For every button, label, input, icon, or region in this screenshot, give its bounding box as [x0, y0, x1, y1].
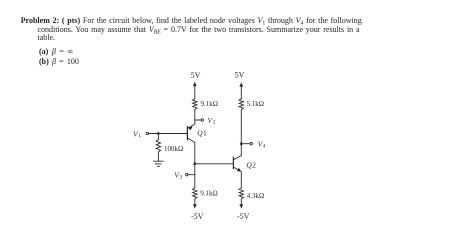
- value label 100kOhm (R2): [164, 145, 183, 153]
- wire: V1 to Q1 base: [149, 133, 188, 135]
- wire: R1 to Q1 emitter (node V2 segment): [194, 110, 196, 125]
- svg-text:1: 1: [203, 129, 207, 138]
- label V3: [174, 171, 182, 181]
- wire: R4 to Q2 collector: [240, 110, 242, 156]
- problem statement line 2: [38, 26, 360, 34]
- label V1: [133, 129, 141, 139]
- item (a): [39, 48, 73, 56]
- junction dot (Q1 collector / Q2 base node): [193, 162, 196, 165]
- svg-text:-5V: -5V: [191, 212, 204, 221]
- wire: junction to R2: [157, 134, 159, 140]
- arrow down to -5V (left): [193, 199, 197, 209]
- value label 4.3kOhm (R5): [247, 192, 264, 200]
- svg-text:-5V: -5V: [237, 212, 250, 221]
- junction dot (node V4): [240, 142, 243, 145]
- ground symbol: [154, 161, 164, 166]
- supply label -5V (left): [191, 212, 204, 221]
- junction dot (V1 / 100k node): [157, 132, 160, 135]
- svg-text:2: 2: [213, 120, 216, 126]
- resistor R1 9.1k: [193, 99, 197, 110]
- svg-text:5.1kΩ: 5.1kΩ: [247, 100, 264, 108]
- svg-text:4.3kΩ: 4.3kΩ: [247, 192, 264, 200]
- wire: Q1 collector down to R3: [194, 142, 196, 187]
- supply label +5V (left): [191, 71, 201, 80]
- resistor R2 100k: [156, 139, 160, 152]
- svg-text:3: 3: [179, 175, 182, 181]
- problem statement line 1: [21, 17, 362, 25]
- arrow up to +5V (right): [239, 82, 243, 98]
- node V3 terminal stub: [186, 174, 195, 176]
- arrow up to +5V (left): [193, 82, 197, 99]
- resistor R4 5.1k: [239, 99, 243, 110]
- svg-text:9.1kΩ: 9.1kΩ: [201, 100, 218, 108]
- value label 9.1kOhm (R1): [201, 100, 218, 108]
- svg-text:4: 4: [263, 143, 266, 149]
- node V2 terminal stub: [195, 119, 204, 121]
- svg-text:5V: 5V: [235, 71, 245, 80]
- svg-text:5V: 5V: [191, 71, 201, 80]
- supply label +5V (right): [235, 71, 245, 80]
- arrow down to -5V (right): [239, 199, 243, 209]
- value label 9.1kOhm (R3): [200, 189, 217, 197]
- svg-text:9.1kΩ: 9.1kΩ: [200, 189, 217, 197]
- label Q1: [197, 129, 207, 138]
- wire: R2 to ground: [157, 152, 159, 161]
- resistor R3 9.1k (bottom left): [193, 188, 197, 199]
- node V1 terminal: [146, 132, 148, 134]
- resistor R5 4.3k: [239, 188, 243, 199]
- supply label -5V (right): [237, 212, 250, 221]
- label V4: [258, 140, 266, 150]
- label Q2: [246, 160, 256, 169]
- wire: node to Q2 base: [195, 163, 234, 165]
- svg-text:2: 2: [252, 160, 256, 169]
- transistor Q1 (PNP, emitter up): [187, 124, 194, 142]
- transistor Q2 (NPN): [233, 156, 241, 172]
- wire: Q2 emitter to R5: [240, 172, 242, 188]
- svg-text:100kΩ: 100kΩ: [164, 145, 183, 153]
- svg-text:1: 1: [138, 133, 141, 139]
- label V2: [208, 116, 216, 126]
- node V4 terminal stub: [241, 143, 252, 145]
- problem statement line 3: [38, 34, 56, 42]
- value label 5.1kOhm (R4): [247, 100, 264, 108]
- item (b): [39, 58, 79, 66]
